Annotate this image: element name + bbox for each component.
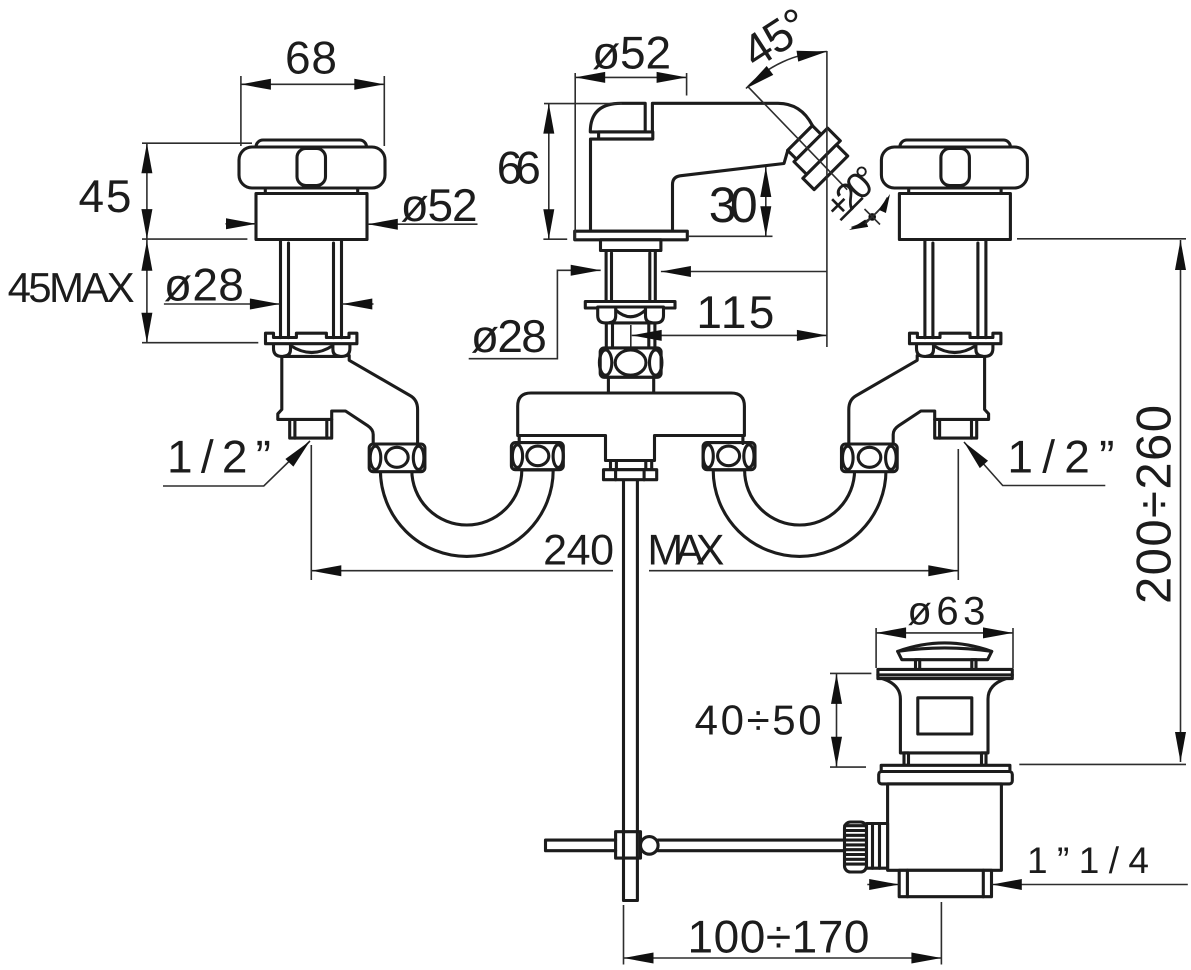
dim 115 line — [632, 334, 827, 336]
svg-text:ø52: ø52 — [592, 26, 671, 78]
right valve group (mirror of left about x=633.2) — [703, 140, 1027, 556]
label o28 left leader — [164, 303, 374, 305]
svg-text:30: 30 — [709, 177, 758, 233]
dim 66 extension lines — [543, 104, 621, 240]
tee coupling left — [511, 443, 563, 470]
right handle center knob — [941, 149, 970, 186]
waste window — [918, 698, 972, 734]
dim 100-170 line — [624, 957, 942, 959]
left valve hex nut lobes — [274, 342, 350, 356]
spout stem — [606, 251, 655, 302]
tee coupling right — [703, 443, 755, 470]
waste funnel body — [883, 679, 1006, 753]
dim 200-260 line — [1180, 240, 1182, 762]
spout lower cylinder — [608, 377, 653, 393]
svg-text:45MAX: 45MAX — [8, 264, 135, 311]
right handle outer — [881, 147, 1027, 188]
svg-text:40÷50: 40÷50 — [695, 697, 822, 744]
dim 45 arrows — [141, 143, 152, 173]
spout aerator at 45deg — [781, 119, 851, 189]
left valve flange — [266, 333, 357, 344]
right valve bonnet — [899, 194, 1010, 240]
dim o63 extension lines — [876, 628, 1013, 668]
spout stem nut lobes — [598, 307, 664, 323]
dim o52 top extension lines — [575, 73, 686, 240]
svg-text:66: 66 — [497, 141, 541, 193]
dim 66 line — [548, 104, 550, 240]
dim 100-170 extension lines — [624, 902, 942, 965]
right 1/2 leader — [964, 442, 1105, 486]
spout base plate — [575, 231, 688, 240]
PARTS — [239, 103, 1027, 900]
right valve coupling nut — [842, 444, 898, 472]
lever horizontal rod — [546, 840, 845, 851]
spout axis line 45deg — [748, 86, 848, 190]
right valve outlet nipple 1/2" — [935, 420, 977, 439]
waste cap dome — [898, 643, 992, 660]
tee arm stubs into couplings — [519, 436, 743, 444]
svg-text:MAX: MAX — [647, 527, 724, 575]
dim 40-50 extension lines — [830, 673, 871, 767]
waste top flange — [878, 669, 1012, 678]
dim 40-50 line — [836, 674, 838, 767]
spout body — [591, 103, 813, 231]
spout stem tick — [630, 325, 632, 356]
spout lower stem — [606, 323, 655, 348]
left valve bonnet — [256, 194, 367, 240]
waste big flange — [881, 765, 1010, 771]
svg-text:ø63: ø63 — [907, 590, 985, 634]
rod packing nut — [611, 461, 652, 470]
waste cap posts — [916, 660, 920, 670]
lever clamp — [616, 832, 641, 858]
dim 45 / 45MAX extension lines — [142, 143, 258, 343]
dim 45deg arc — [746, 52, 827, 89]
left handle inner — [256, 140, 367, 188]
left handle center knob — [297, 149, 326, 186]
dim 115 vertical extension — [826, 51, 828, 347]
svg-text:68: 68 — [285, 32, 337, 84]
dim 68 line — [241, 83, 384, 85]
svg-text:ø52: ø52 — [401, 179, 478, 231]
left valve coupling nut — [369, 444, 425, 472]
dim 68 extension lines — [241, 76, 384, 146]
left valve stem — [281, 240, 342, 338]
left 1/2 leader — [163, 441, 310, 486]
waste tailpiece 1"1/4 — [899, 870, 991, 896]
spout stem flange — [585, 302, 675, 309]
right valve flange — [910, 333, 1001, 344]
spout cap band — [599, 132, 653, 139]
dim 1-1/4 leaders — [867, 884, 1188, 886]
svg-text:100÷170: 100÷170 — [688, 911, 870, 963]
spout head cap — [590, 103, 645, 132]
svg-text:240: 240 — [543, 527, 614, 575]
dim 30 line — [688, 167, 773, 236]
svg-text:45: 45 — [79, 170, 132, 222]
pm20 pivot dot — [868, 213, 876, 221]
spout collar — [601, 240, 661, 251]
dim 240MAX extension lines — [311, 445, 958, 580]
right U-pipe — [713, 470, 886, 556]
tee body with center boss — [518, 393, 745, 461]
right handle inner — [900, 140, 1011, 188]
waste lower posts — [904, 753, 909, 765]
label o28 center leader — [469, 270, 827, 358]
dim o52 top line — [575, 76, 686, 78]
dim 68 arrows — [241, 79, 271, 90]
spout coupling nut — [600, 348, 661, 377]
right valve hex nut lobes — [917, 342, 993, 356]
svg-text:ø28: ø28 — [471, 310, 547, 362]
waste lower body — [888, 784, 1002, 870]
waste knurled nut — [845, 822, 867, 872]
right valve body and elbow pipe — [849, 356, 989, 449]
pm20 swing arrow — [852, 198, 888, 228]
lever ball joint — [641, 837, 659, 855]
right valve stem — [925, 240, 986, 338]
left valve outlet nipple 1/2" — [290, 420, 332, 439]
svg-text:ø28: ø28 — [164, 259, 244, 311]
svg-text:1”1/4: 1”1/4 — [1027, 840, 1152, 881]
svg-text:200÷260: 200÷260 — [1128, 405, 1182, 604]
dim 200-260 extension lines — [1017, 239, 1186, 765]
dim o63 line — [876, 632, 1013, 634]
nipple inner lines — [295, 420, 327, 439]
waste collar — [867, 824, 888, 869]
svg-text:115: 115 — [696, 286, 774, 338]
dim 45 line — [146, 143, 148, 343]
handle ticks — [265, 188, 357, 194]
rod flange — [604, 470, 657, 480]
left handle outer — [239, 147, 385, 188]
pop-up rod — [624, 480, 638, 901]
dim 240MAX line — [311, 570, 958, 572]
label o52 left leader — [226, 223, 478, 225]
left valve body and elbow pipe — [278, 356, 418, 449]
left U-pipe — [380, 470, 553, 556]
